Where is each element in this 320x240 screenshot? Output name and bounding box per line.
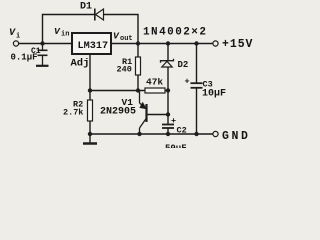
resistor R1 — [136, 57, 141, 75]
node R2 bottom — [88, 132, 92, 136]
diode D2 (to +15V) — [161, 59, 174, 67]
svg-text:2N2905: 2N2905 — [100, 107, 136, 118]
svg-text:C2: C2 — [177, 126, 187, 136]
wire base node to C2 bottom — [167, 129, 169, 135]
wire R1 vertical — [137, 44, 139, 58]
svg-text:+15V: +15V — [222, 38, 253, 51]
svg-text:GND: GND — [222, 130, 251, 143]
wire Adj node to R1 bottom — [90, 90, 145, 92]
terminal Vi — [13, 41, 18, 46]
svg-text:50µF: 50µF — [165, 144, 187, 149]
ground — [83, 142, 97, 145]
wire base horizontal — [148, 114, 168, 116]
transistor Q1 2N2905 — [140, 91, 147, 135]
wire input horizontal — [19, 43, 73, 45]
svg-text:+: + — [185, 77, 190, 87]
wire D2 vertical top — [167, 44, 169, 61]
resistor 47k — [145, 88, 165, 93]
terminal +15V — [213, 41, 218, 46]
resistor R2 — [88, 100, 93, 121]
wire top rail to D1 — [43, 15, 139, 44]
svg-text:i: i — [16, 33, 20, 41]
wire R2 vertical — [89, 91, 91, 101]
svg-text:in: in — [61, 31, 69, 39]
svg-text:1N4002×2: 1N4002×2 — [143, 26, 207, 38]
capacitor C2 — [162, 125, 174, 129]
wire 47k right to D2/C2 node — [165, 90, 168, 92]
wire ground stub — [89, 134, 91, 143]
node R1 top — [136, 41, 140, 45]
diode D1 — [95, 9, 104, 21]
svg-text:Adj: Adj — [71, 58, 90, 70]
capacitor C1 — [36, 45, 49, 66]
svg-text:240: 240 — [117, 65, 132, 75]
wire C3 vertical — [196, 44, 198, 83]
node C3 top — [194, 41, 198, 45]
node base — [166, 112, 170, 116]
terminal GND — [213, 131, 218, 136]
wire Adj pin down — [89, 54, 91, 91]
node Adj junction — [88, 88, 92, 92]
svg-text:10µF: 10µF — [202, 89, 226, 100]
svg-text:LM317: LM317 — [78, 41, 109, 52]
node D2 top — [166, 41, 170, 45]
wire D2 bottom to base node — [167, 67, 169, 124]
wire output rail — [111, 43, 213, 45]
regulator U1 LM317 — [72, 33, 111, 54]
node collector bottom — [137, 132, 141, 136]
svg-text:2.7k: 2.7k — [63, 108, 83, 118]
svg-text:0.1µF: 0.1µF — [11, 53, 38, 63]
svg-text:+: + — [171, 116, 176, 126]
node C3 bottom — [194, 132, 198, 136]
svg-text:D2: D2 — [178, 60, 189, 70]
node input junction — [40, 41, 44, 45]
svg-text:V: V — [9, 28, 16, 39]
svg-text:47k: 47k — [146, 77, 163, 88]
svg-text:D1: D1 — [80, 2, 92, 13]
wire bottom rail — [90, 133, 213, 135]
node C2 bottom — [166, 132, 170, 136]
svg-text:out: out — [120, 35, 133, 43]
capacitor C3 — [191, 83, 203, 88]
node 47k right — [166, 88, 170, 92]
node 47k left / R1 bottom — [136, 88, 140, 92]
